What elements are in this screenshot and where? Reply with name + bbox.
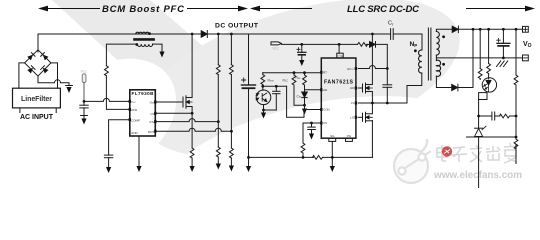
terminal Vo minus bbox=[523, 55, 529, 61]
wire top rail PFC bbox=[38, 34, 390, 52]
svg-text:CTR: CTR bbox=[337, 55, 344, 59]
wire HVcc with hop bbox=[358, 66, 387, 69]
boost inductor core bars bbox=[135, 38, 154, 41]
wire COMP pin chain bbox=[109, 120, 130, 155]
node opto R1 rail bbox=[479, 28, 482, 31]
wire R1 to opto circle bbox=[479, 79, 481, 80]
svg-text:AC INPUT: AC INPUT bbox=[20, 114, 54, 121]
watermark chinese text 电子发烧友 (drawn strokes) bbox=[437, 143, 518, 163]
transformer T1 core bbox=[428, 28, 431, 80]
wire bus cap vertical bbox=[248, 34, 250, 166]
wire aux left lead to ZCD chain bbox=[106, 44, 136, 66]
svg-text:NP: NP bbox=[410, 41, 418, 48]
BCM span right arrow bbox=[187, 6, 248, 12]
node Vcc cap bbox=[83, 100, 86, 103]
svg-text:INV: INV bbox=[149, 120, 154, 124]
ground sense resistor bbox=[190, 166, 195, 172]
capacitor Vcc LLC electrolytic bbox=[297, 44, 306, 60]
LLC span left arrow bbox=[250, 6, 312, 12]
wire feedback RC bbox=[479, 115, 492, 117]
resistor divider A top bbox=[216, 65, 220, 75]
wire aux right lead bbox=[153, 44, 162, 51]
wire bridge right leg to line filter bbox=[51, 63, 58, 88]
capacitor CS filter bbox=[308, 123, 316, 134]
node drain rail LLC bbox=[371, 33, 374, 36]
node feedback tap bbox=[477, 115, 480, 118]
wire resistor to divider bbox=[510, 115, 517, 117]
node divider B top bbox=[230, 33, 233, 36]
wire rail to primary coil bbox=[394, 34, 422, 50]
svg-text:Out: Out bbox=[150, 101, 155, 105]
wire R2 to LED bbox=[488, 74, 490, 79]
node divider TL431 bbox=[515, 136, 518, 139]
wire opto R1 chain bbox=[479, 29, 481, 68]
resistor sense Rcs bbox=[190, 148, 194, 158]
node IC top stub bbox=[338, 43, 341, 46]
node VS bootstrap bbox=[386, 102, 389, 105]
wire AC input stubs bbox=[20, 108, 56, 113]
node drain line top bbox=[191, 33, 194, 36]
node Vcc cap junction bbox=[300, 43, 303, 46]
boost diode D1 bbox=[201, 31, 207, 38]
node CS rail bbox=[302, 156, 305, 159]
wire opto emitter bbox=[264, 105, 277, 110]
resistor divider A bottom bbox=[216, 147, 220, 157]
background gray swoosh blob bbox=[123, 0, 478, 189]
svg-text:Rmin: Rmin bbox=[268, 79, 275, 83]
wire D3 up to rail bbox=[458, 29, 473, 87]
op-amp U1 FL7930B box bbox=[129, 90, 157, 136]
wire CS pin to source bbox=[157, 112, 193, 114]
svg-text:FAN7621S: FAN7621S bbox=[324, 80, 354, 86]
ground soft start bbox=[302, 105, 307, 114]
ground divider A bbox=[216, 164, 221, 170]
transformer T1 secondary top bbox=[436, 32, 445, 56]
svg-text:MOT: MOT bbox=[148, 130, 155, 134]
BCM span left arrow bbox=[38, 6, 100, 12]
ground Vcc cap LLC bbox=[299, 60, 304, 66]
diode bootstrap bbox=[370, 42, 376, 48]
svg-text:LO: LO bbox=[350, 116, 355, 120]
wire RT row bbox=[263, 72, 322, 74]
svg-text:CON: CON bbox=[323, 108, 330, 112]
resistor divider B bottom bbox=[230, 148, 234, 158]
svg-text:VCC: VCC bbox=[273, 47, 279, 51]
wire sense resistor to ground bbox=[191, 158, 193, 166]
ground aux winding bbox=[159, 52, 164, 58]
wire divider A vertical bbox=[217, 34, 219, 164]
node R2 top bbox=[293, 71, 296, 74]
resistor opto R1 bbox=[478, 69, 482, 79]
node bus bottom rail bbox=[247, 156, 250, 159]
capacitor output electrolytic bbox=[497, 29, 510, 58]
resistor ZCD R bbox=[105, 66, 109, 76]
terminal Vo plus bbox=[523, 26, 529, 32]
wire R2 bottom to gnd node bbox=[294, 85, 305, 105]
transistor Q2 high side MOSFET bbox=[358, 34, 372, 103]
resistor CS chain bbox=[301, 143, 305, 153]
wire Out pin to gate bbox=[157, 101, 184, 103]
node D3 rail bbox=[472, 28, 475, 31]
svg-text:FL7930B: FL7930B bbox=[132, 91, 155, 96]
wire Vcc pin with hop bbox=[84, 98, 130, 101]
svg-text:ZCD: ZCD bbox=[131, 108, 138, 112]
node opto R2 rail bbox=[487, 28, 490, 31]
ground divider B bbox=[229, 166, 234, 172]
resistor bottom rail bbox=[313, 156, 323, 160]
diode output D2 bbox=[452, 26, 458, 33]
ground bus cap bbox=[246, 166, 251, 172]
resistor divider top bbox=[514, 75, 518, 85]
svg-text:SG: SG bbox=[330, 134, 335, 138]
background gray diagonal band watermark bbox=[52, 0, 330, 188]
wire Vcc bootstrap line bbox=[281, 44, 387, 68]
svg-text:HO: HO bbox=[350, 86, 355, 90]
wire ZCD chain down to ZCD pin bbox=[106, 76, 129, 110]
Vcc tag vertical at FL7930B bbox=[81, 70, 87, 102]
ground bridge output bbox=[66, 86, 73, 94]
wire cap to resistor bbox=[495, 115, 500, 117]
svg-text:DC OUTPUT: DC OUTPUT bbox=[215, 23, 259, 30]
wire bridge bottom to ground with hop bbox=[38, 76, 69, 85]
ground CS filter cap bbox=[309, 134, 314, 140]
svg-text:Css: Css bbox=[297, 95, 303, 99]
wire VS line bbox=[358, 73, 422, 103]
node divider rail bbox=[515, 28, 518, 31]
wire secondary top lead bbox=[436, 29, 452, 31]
wire secondary bottom lead bbox=[436, 76, 451, 87]
capacitor COMP bbox=[104, 155, 112, 166]
wire CS resistor to rail bbox=[302, 153, 304, 157]
svg-text:RLC: RLC bbox=[283, 79, 289, 83]
resistor opto R2 bbox=[487, 64, 491, 74]
op-amp U2 FAN7621S box bbox=[320, 53, 357, 141]
wire secondary mid link bbox=[435, 55, 437, 60]
svg-text:LineFilter: LineFilter bbox=[21, 96, 52, 103]
line filter box bbox=[13, 88, 61, 108]
node soft start gnd bbox=[303, 104, 306, 107]
resistor bootstrap bbox=[358, 43, 368, 47]
wire opto collector to CON path bbox=[263, 85, 287, 87]
wire GND pin down bbox=[138, 136, 140, 166]
Vcc tag LLC bbox=[271, 42, 281, 51]
resistor divider B top bbox=[230, 65, 234, 75]
wire output rail top bbox=[458, 28, 522, 30]
node opto collector bbox=[261, 85, 264, 88]
capacitor comp LLC bbox=[273, 86, 280, 110]
wire TL431 anode down bbox=[478, 137, 480, 188]
shunt regulator TL431 bbox=[475, 126, 486, 137]
capacitor feedback bbox=[492, 112, 495, 120]
resistor R2 bbox=[283, 73, 296, 85]
node HVcc bootstrap bbox=[386, 67, 389, 70]
wire opto R2 chain bbox=[488, 29, 490, 63]
ground Vcc cap bbox=[81, 119, 86, 125]
wire bottom rail LLC bbox=[249, 121, 373, 158]
capacitor Vcc bbox=[80, 101, 88, 118]
capacitor DC bus C1 bbox=[242, 78, 256, 88]
svg-text:Cr: Cr bbox=[388, 21, 394, 27]
svg-text:LLC SRC DC-DC: LLC SRC DC-DC bbox=[347, 4, 419, 15]
node comp cap top bbox=[275, 85, 278, 88]
svg-text:www.elecfans.com: www.elecfans.com bbox=[433, 170, 522, 181]
wire TL431 anode rail bbox=[466, 136, 516, 138]
svg-text:CS: CS bbox=[323, 121, 327, 125]
boost inductor aux winding bbox=[135, 43, 152, 46]
ground SG bbox=[330, 166, 335, 172]
transformer T1 secondary bottom bbox=[436, 60, 445, 76]
wire CS pin path bbox=[303, 123, 321, 143]
watermark logo circle bottom right bbox=[394, 139, 431, 183]
svg-text:PG: PG bbox=[347, 134, 352, 138]
watermark red logo dot bbox=[442, 146, 452, 156]
wire output rail return bbox=[436, 57, 522, 59]
opto transistor U3 bbox=[256, 85, 271, 105]
svg-text:VCC: VCC bbox=[81, 70, 87, 74]
wire divider chain bbox=[515, 29, 517, 163]
node divider feedback bbox=[515, 115, 518, 118]
ground FL7930B GND bbox=[136, 166, 141, 172]
node MOT tap bbox=[230, 130, 233, 133]
svg-text:BCM Boost PFC: BCM Boost PFC bbox=[102, 4, 184, 15]
node CS source junction bbox=[191, 112, 194, 115]
wire SG pin to rail and ground bbox=[331, 141, 333, 165]
node INV tap bbox=[217, 120, 220, 123]
diode output D3 bbox=[452, 84, 458, 91]
svg-text:VO: VO bbox=[523, 41, 532, 49]
bridge rectifier BR1 bbox=[25, 50, 51, 76]
node VS half bridge bbox=[371, 102, 374, 105]
svg-text:CS: CS bbox=[150, 112, 154, 116]
LLC span right arrow bbox=[466, 6, 535, 12]
node opto emitter bbox=[262, 109, 265, 112]
boost inductor L1 main winding bbox=[136, 32, 151, 35]
transformer T1 primary winding bbox=[410, 41, 422, 73]
node out cap return bbox=[502, 57, 505, 60]
opto bottom box bbox=[479, 93, 487, 100]
ground chassis output bbox=[497, 61, 508, 67]
node SG rail bbox=[331, 156, 334, 159]
wire IC top stub bbox=[338, 44, 340, 53]
capacitor bootstrap bbox=[383, 69, 392, 104]
node out cap rail bbox=[502, 28, 505, 31]
svg-text:RT: RT bbox=[323, 71, 327, 75]
svg-text:COMP: COMP bbox=[131, 118, 140, 122]
white swoosh cutout bbox=[127, 66, 509, 240]
resistor divider bottom bbox=[514, 139, 518, 149]
wire divider B vertical bbox=[230, 34, 232, 166]
wire CON pin path bbox=[287, 86, 322, 117]
diode soft start bbox=[297, 92, 308, 105]
wire INV pin with hop bbox=[157, 119, 219, 122]
wire AR pin bbox=[305, 89, 322, 91]
wire bridge left leg to line filter bbox=[19, 63, 25, 88]
wire source down to sense resistor bbox=[191, 113, 193, 148]
opto diode U4 bbox=[482, 78, 496, 92]
resistor Rmin bbox=[261, 73, 275, 85]
resistor feedback bbox=[500, 114, 510, 118]
wire opto box down bbox=[478, 100, 480, 129]
node CS filter cap bbox=[310, 122, 313, 125]
capacitor Cr resonant bbox=[388, 21, 394, 40]
wire R3 to AR junction bbox=[304, 85, 306, 92]
svg-text:GND: GND bbox=[131, 131, 139, 135]
node R3 top bbox=[303, 71, 306, 74]
transistor Q1 boost MOSFET bbox=[183, 34, 192, 113]
resistor R3 bbox=[296, 73, 307, 85]
svg-text:Rss: Rss bbox=[296, 76, 302, 80]
transistor Q3 low side MOSFET bbox=[358, 103, 372, 122]
wire MOT pin with hops bbox=[157, 128, 232, 131]
node divider A top bbox=[217, 33, 220, 36]
ground COMP cap bbox=[106, 167, 111, 173]
ground opto emitter bbox=[261, 110, 266, 119]
